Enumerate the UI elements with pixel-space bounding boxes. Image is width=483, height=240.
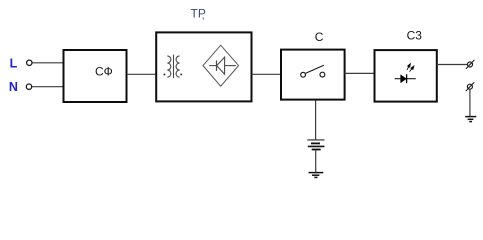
battery GB cell1 negative plate (311, 142, 320, 144)
wire L (32, 62, 62, 64)
block С (switch) (281, 50, 345, 100)
transformer core (173, 55, 175, 79)
bridge diode anode lead (209, 65, 216, 67)
block ТР (transformer+rectifier) (156, 32, 251, 101)
LED cathode bar (406, 74, 408, 83)
battery GB cell2 negative plate (312, 149, 321, 151)
svg-text:,: , (202, 11, 205, 22)
ground (right) bar2 (468, 118, 474, 120)
bridge diode cathode lead (225, 65, 236, 67)
LED emission arrow 2 (410, 66, 414, 71)
svg-text:С: С (315, 30, 324, 44)
battery GB cell2 positive plate (308, 145, 325, 147)
switch pole contact (301, 72, 306, 77)
wire pin2-ground (469, 89, 471, 116)
block С3 (LED indicator) (375, 50, 437, 102)
svg-text:СФ: СФ (95, 65, 113, 79)
terminal circle L (27, 60, 32, 65)
svg-text:L: L (10, 56, 18, 70)
bridge diode triangle (217, 57, 225, 74)
output terminal pin 1 (466, 60, 475, 69)
LED triangle (401, 75, 407, 83)
svg-text:С3: С3 (407, 28, 423, 42)
bridge diode cathode bar (216, 60, 218, 71)
block СФ (mains filter) (64, 50, 127, 102)
wire N (32, 86, 63, 88)
bridge rectifier diamond (203, 45, 239, 86)
LED emission arrow 1 (407, 64, 410, 70)
switch throw contact (320, 72, 325, 77)
wire С3-output (437, 64, 468, 66)
wire С-С3 (345, 72, 374, 74)
transformer secondary phase dot (180, 74, 182, 76)
ground (right) bar3 (469, 121, 472, 123)
LED anode lead (395, 78, 416, 80)
switch lever (306, 65, 324, 73)
transformer T primary winding (167, 56, 171, 77)
svg-text:N: N (9, 80, 18, 94)
wire ТР-С (252, 73, 281, 75)
transformer T secondary winding (176, 56, 180, 77)
ground (battery) bar1 (309, 172, 324, 174)
wire С-battery (315, 101, 317, 140)
ground (battery) bar3 (314, 176, 317, 178)
wire СФ-ТР (127, 73, 156, 75)
terminal circle N (26, 84, 31, 89)
battery GB cell1 positive plate (307, 139, 324, 141)
ground (right) bar1 (465, 116, 476, 118)
ground (battery) bar2 (312, 174, 319, 176)
output terminal pin 2 (466, 82, 475, 91)
wire battery-ground (315, 150, 317, 172)
transformer primary phase dot (163, 74, 165, 76)
